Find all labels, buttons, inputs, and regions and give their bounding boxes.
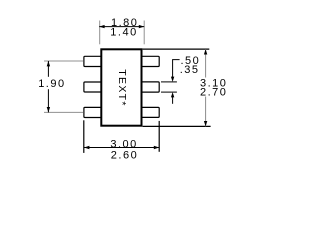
extension line left (overall width dim) (83, 120, 85, 153)
extension line left (body width dim) (99, 21, 101, 45)
arrow up of 3.10 dim (204, 49, 207, 54)
pin 5 (right middle) (142, 82, 160, 92)
arrow right of 1.80 dim (139, 25, 144, 28)
dimension line 1.80/1.40 (99, 26, 144, 28)
dimension line 3.10/2.70 lower segment (205, 97, 207, 127)
svg-text:2.60: 2.60 (111, 149, 138, 161)
pin 2 (left middle) (84, 82, 102, 92)
extension line pin bottom (lead width dim) (161, 91, 177, 93)
dimension line 1.90 lower segment (47, 89, 49, 112)
leader lower of .50/.35 (172, 97, 174, 104)
svg-text:.35: .35 (180, 64, 200, 76)
arrow left of 3.00 dim (84, 146, 89, 149)
svg-text:1.40: 1.40 (110, 27, 137, 39)
extension line pin top (lead width dim) (161, 81, 177, 83)
arrow up of 1.90 dim (47, 61, 50, 66)
svg-text:TEXT*: TEXT* (116, 69, 128, 106)
dimension line 3.00/2.60 (84, 147, 159, 149)
svg-text:1.90: 1.90 (38, 78, 65, 90)
pin 4 (right bottom) (142, 107, 160, 117)
svg-text:2.70: 2.70 (200, 87, 227, 99)
arrow right of 3.00 dim (154, 146, 159, 149)
leader upper of .50/.35 (173, 60, 180, 78)
extension line bottom (overall height dim) (143, 125, 211, 127)
arrow up to pin bottom (171, 92, 174, 97)
pin 1 (left top) (84, 56, 102, 66)
package body (101, 49, 141, 125)
extension line top (pin pitch dim) (44, 60, 83, 62)
arrow down to pin top (171, 77, 174, 82)
dimension line 3.10/2.70 upper segment (205, 49, 207, 77)
arrow down of 3.10 dim (204, 121, 207, 126)
dimension line 1.90 upper segment (47, 61, 49, 77)
pin 3 (left bottom) (84, 107, 102, 117)
pin 6 (right top) (142, 56, 160, 66)
extension line right (overall width dim) (158, 121, 160, 152)
arrow left of 1.80 dim (99, 25, 104, 28)
extension line bottom (pin pitch dim) (44, 111, 83, 113)
extension line right (body width dim) (143, 21, 145, 45)
extension line top (overall height dim) (143, 48, 210, 50)
arrow down of 1.90 dim (47, 107, 50, 112)
